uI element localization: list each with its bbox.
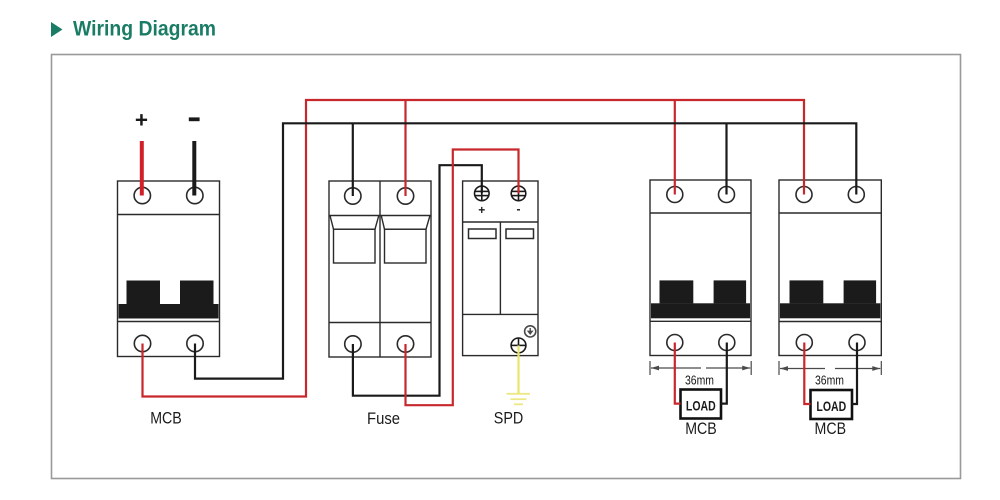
svg-text:36mm: 36mm — [815, 374, 844, 388]
label &#8722; — [189, 117, 200, 121]
screw terminal - (pin 2) — [511, 186, 526, 201]
svg-text:+: + — [135, 108, 148, 133]
surge protector SPD — [463, 181, 538, 356]
load box (MCB3) — [811, 390, 853, 419]
wire red MCB2 to load — [675, 343, 681, 404]
earth badge icon — [525, 326, 536, 337]
dimension 36mm (MCB3) — [779, 361, 881, 375]
ground — [507, 394, 531, 405]
fuse F1 — [329, 181, 431, 357]
dimension 36mm (MCB2) — [650, 361, 751, 375]
wire black fuse out to SPD + — [353, 165, 482, 396]
wire + input — [140, 141, 144, 196]
svg-text:36mm: 36mm — [685, 374, 714, 388]
svg-text:LOAD: LOAD — [816, 399, 846, 414]
title marker — [51, 22, 63, 37]
ground screw terminal — [511, 338, 526, 353]
wire red fuse out to SPD - — [406, 150, 519, 406]
svg-text:MCB: MCB — [150, 409, 182, 428]
breaker MCB1 — [118, 181, 220, 357]
svg-text:MCB: MCB — [685, 419, 717, 438]
wire red drop to fuse F1 top-right — [404, 100, 406, 196]
wire earth — [517, 345, 519, 394]
wire red drop to MCB2 top-left — [674, 100, 676, 195]
load box (MCB2) — [681, 390, 722, 419]
svg-text:-: - — [517, 202, 521, 216]
wire &#8722; input — [192, 141, 196, 196]
wire black drop to fuse F1 top-left — [352, 123, 354, 196]
svg-text:+: + — [478, 203, 485, 217]
svg-text:SPD: SPD — [494, 409, 524, 428]
wire black MCB3 to load — [852, 343, 857, 405]
screw terminal + (pin 1) — [475, 186, 490, 201]
svg-text:MCB: MCB — [815, 419, 847, 438]
svg-text:Fuse: Fuse — [367, 409, 400, 428]
svg-text:LOAD: LOAD — [686, 399, 716, 414]
panel border frame — [52, 55, 961, 479]
wire black MCB2 to load — [721, 343, 727, 404]
wire black bus: MCB1 out to fuse / MCB2 / MCB3 — [195, 123, 856, 378]
wire red MCB3 to load — [804, 343, 810, 405]
svg-text:Wiring Diagram: Wiring Diagram — [73, 17, 216, 41]
breaker MCB2 — [650, 180, 751, 356]
wire red bus: MCB1 out to fuse / MCB2 / MCB3 — [143, 100, 805, 397]
wire black drop to MCB2 top-right — [725, 123, 727, 194]
breaker MCB3 — [779, 180, 881, 356]
